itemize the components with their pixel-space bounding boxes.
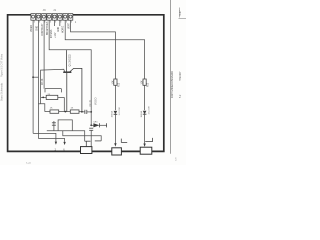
svg-text:1N914: 1N914 [141,110,143,117]
transistor Q1 [63,50,82,112]
wire pin1 down [32,20,34,133]
diode CR1 row [90,122,106,128]
wire pin2 bottom run [38,139,64,142]
connector pin circles [32,15,72,18]
svg-text:5-27: 5-27 [178,10,182,16]
arrow into E3 [143,144,145,147]
svg-text:5-28: 5-28 [26,162,31,165]
wire B horizontal [63,131,101,141]
connector E2 box [112,148,122,155]
wire line1 to E2 [114,114,116,144]
pin signal labels (rotated) [31,21,70,38]
capacitor C7 small [52,121,56,131]
wire line2 mid [144,85,146,110]
svg-text:HORIZ: HORIZ [63,25,65,33]
left edge rotated page text [0,53,3,101]
svg-text:Board Schematic: Board Schematic [0,82,3,101]
svg-text:VIDEO: VIDEO [95,97,98,105]
pin stubs below connector [55,20,60,26]
ground bar E3 [145,138,152,142]
resistor R4 (pot) body [41,94,65,99]
svg-text:1.2-3.0V: 1.2-3.0V [119,107,121,116]
connector J1 body pins [31,14,73,21]
capacitor C2 across pot [45,89,61,93]
node E [65,111,67,113]
wire rail [45,111,50,113]
wire pin8 down right to line1 [71,20,116,79]
wire pin1 bottom run [33,133,56,141]
wire [79,111,85,113]
arrow to pin 6 [63,142,65,145]
svg-text:+12V: +12V [55,32,57,38]
svg-text:INTENS: INTENS [51,29,53,38]
wire line2 to E3 [144,114,146,144]
node bridge pins1-2 [32,76,38,78]
wire pot right leg down [63,97,65,111]
resistor R13 [142,79,150,87]
wire pin3 down [43,20,45,89]
node C [81,111,83,113]
wire [59,111,71,113]
svg-text:VERT: VERT [68,22,70,29]
jumper wire loop [58,120,72,131]
svg-text:Figure 5-2 CRT Video: Figure 5-2 CRT Video [0,53,3,77]
ground bar 2 [95,140,101,142]
svg-text:J9: J9 [43,8,47,12]
board outline (thick frame) [8,15,164,152]
wire pot bottom jog to rail [41,104,45,112]
connector E3 box [140,147,152,154]
svg-text:CONTRAST: CONTRAST [41,23,44,36]
wire pin7 down right to line2 [65,20,144,79]
capacitor C10 on pin4 line [89,128,93,130]
svg-text:CR1: CR1 [93,122,98,124]
wire pin4 down then right [49,20,91,125]
svg-text:1.5-3.0V: 1.5-3.0V [149,106,151,115]
wire pot top rail to transistor base [41,69,65,104]
svg-text:Q1 2N2222: Q1 2N2222 [68,54,71,67]
node bridge pin2 to pot [38,103,40,105]
svg-text:J1: J1 [53,8,57,12]
capacitor C9 [85,110,91,114]
svg-text:CRT/VIDEO BOARD: CRT/VIDEO BOARD [170,71,174,98]
svg-text:GND: GND [58,27,60,32]
svg-text:R13: R13 [148,82,150,87]
svg-text:THEORY: THEORY [180,71,182,81]
pin number ticks below connector [34,20,71,22]
ground bar 1 [85,141,91,146]
title block divider [179,8,181,18]
emitter rail with resistors [45,108,85,114]
svg-text:1N914: 1N914 [112,110,114,117]
arrow to pin 2 [55,142,57,145]
wire A horizontal [47,131,85,141]
svg-text:R3 2K: R3 2K [42,78,44,85]
node on pin4 line [90,111,92,113]
wire pin2 down [37,20,39,138]
arrow into E2 [114,143,116,146]
svg-text:R12: R12 [118,82,120,87]
connector E1 box [81,147,92,154]
wire line1 mid [114,85,116,110]
page right border [169,0,171,154]
ground bar E2 [121,139,127,143]
svg-text:C9 .01: C9 .01 [90,99,92,106]
diode CR3 on line2 [141,106,151,118]
resistor R12 [112,79,120,87]
diode CR2 on line1 [112,107,122,118]
wire pin4 line into E1 [90,130,92,146]
